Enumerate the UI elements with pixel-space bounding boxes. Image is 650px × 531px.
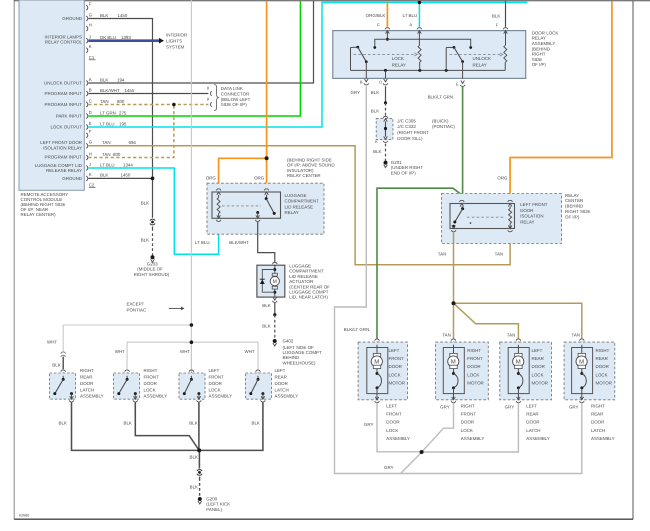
svg-text:ISOLATION RELAY: ISOLATION RELAY xyxy=(43,145,82,150)
svg-text:WHT: WHT xyxy=(245,349,255,354)
motor M3 LEFT REAR DOOR LOCK MOTOR xyxy=(516,339,521,341)
svg-text:A: A xyxy=(89,77,92,82)
svg-text:LOCK: LOCK xyxy=(209,387,221,392)
svg-text:F: F xyxy=(89,129,92,134)
svg-text:BLK/WHT: BLK/WHT xyxy=(100,88,120,93)
module U1 REMOTE ACCESSORY CONTROL MODULE xyxy=(19,0,84,190)
svg-text:LEFT: LEFT xyxy=(386,403,397,408)
svg-text:(UNDER RIGHT: (UNDER RIGHT xyxy=(391,165,424,170)
svg-text:G200: G200 xyxy=(206,497,217,502)
svg-text:FRONT: FRONT xyxy=(461,412,477,417)
svg-text:RIGHT: RIGHT xyxy=(596,348,610,353)
svg-text:MOTOR: MOTOR xyxy=(596,381,612,386)
wire BLK right front door lock to junction xyxy=(135,402,199,450)
svg-text:WHEELHOUSE): WHEELHOUSE) xyxy=(283,360,316,365)
svg-text:1344: 1344 xyxy=(123,162,133,167)
svg-text:REAR: REAR xyxy=(275,374,287,379)
svg-text:(MIDDLE OF: (MIDDLE OF xyxy=(137,267,163,272)
svg-text:C: C xyxy=(377,23,380,28)
svg-text:BLK: BLK xyxy=(189,420,197,425)
relay LUGGAGE COMPARTMENT LID RELEASE RELAY box xyxy=(212,192,281,218)
wire BLK/LT GRN relay pin E to left front door lock motor xyxy=(461,86,464,198)
svg-text:LT BLU: LT BLU xyxy=(403,13,418,18)
junction node BLK 1450 xyxy=(151,177,155,181)
svg-text:194: 194 xyxy=(117,77,124,82)
svg-text:LATCH: LATCH xyxy=(80,387,94,392)
svg-text:694: 694 xyxy=(129,140,136,145)
svg-text:RELAY CONTROL: RELAY CONTROL xyxy=(45,40,82,45)
svg-text:DK BLU: DK BLU xyxy=(100,35,116,40)
svg-text:BLK: BLK xyxy=(124,420,132,425)
svg-text:M: M xyxy=(374,358,379,365)
svg-text:DOOR SILL): DOOR SILL) xyxy=(397,136,422,141)
wire LT BLU 1344 luggage compt lid release relay xyxy=(88,168,218,254)
actuator LUGGAGE COMPARTMENT LID RELEASE ACTUATOR box xyxy=(273,262,278,264)
wire BLK left rear door latch to junction xyxy=(201,402,263,450)
svg-text:LOCK: LOCK xyxy=(532,372,544,377)
svg-text:FRONT: FRONT xyxy=(209,374,225,379)
svg-text:BLK: BLK xyxy=(190,484,198,489)
svg-text:ASSEMBLY: ASSEMBLY xyxy=(275,394,299,399)
ground G201 xyxy=(384,161,388,165)
svg-text:RIGHT: RIGHT xyxy=(461,403,475,408)
svg-text:PROGRAM INPUT: PROGRAM INPUT xyxy=(45,91,83,96)
svg-text:G402: G402 xyxy=(283,339,294,344)
wire BLK 194 unlock output xyxy=(88,1,313,83)
svg-text:LOCK: LOCK xyxy=(389,372,401,377)
svg-text:LUGGAGE: LUGGAGE xyxy=(285,193,307,198)
ground G200 xyxy=(198,497,202,501)
svg-text:ISOLATION: ISOLATION xyxy=(520,214,543,219)
svg-text:H: H xyxy=(89,151,92,156)
svg-text:GRY: GRY xyxy=(440,405,450,410)
svg-text:TAN: TAN xyxy=(442,332,451,337)
svg-text:OF I/P; ABOVE SOUND: OF I/P; ABOVE SOUND xyxy=(287,163,335,168)
svg-text:J: J xyxy=(89,162,91,167)
svg-text:FRONT: FRONT xyxy=(386,412,402,417)
svg-text:CENTER: CENTER xyxy=(565,198,583,203)
inline connector BLK G200 xyxy=(197,469,202,471)
svg-text:1455: 1455 xyxy=(125,88,135,93)
svg-text:RELAY CENTER: RELAY CENTER xyxy=(287,173,321,178)
svg-text:F: F xyxy=(496,23,499,28)
svg-text:BLK: BLK xyxy=(492,14,500,19)
svg-text:G: G xyxy=(89,12,93,17)
svg-text:RELAY: RELAY xyxy=(565,193,579,198)
svg-text:BLK: BLK xyxy=(262,324,270,329)
svg-text:1450: 1450 xyxy=(118,13,128,18)
svg-text:OF I/P; NEAR: OF I/P; NEAR xyxy=(21,207,49,212)
wire GRY from motor M3 xyxy=(424,403,519,452)
svg-text:195: 195 xyxy=(119,121,126,126)
wire BLK/WHT luggage relay to actuator xyxy=(258,222,275,262)
svg-text:(BEHIND: (BEHIND xyxy=(565,204,583,209)
wire LT BLU branch to relay pin A xyxy=(418,2,421,27)
wire WHT door jamb switch feed xyxy=(190,0,192,373)
svg-text:H: H xyxy=(89,22,92,27)
wire BLK to pin F xyxy=(504,1,506,27)
svg-text:LID RELEASE: LID RELEASE xyxy=(285,204,314,209)
svg-text:LOCK OUTPUT: LOCK OUTPUT xyxy=(50,124,82,129)
svg-text:RELEASE RELAY: RELEASE RELAY xyxy=(46,168,82,173)
svg-text:INTERIOR LAMPS: INTERIOR LAMPS xyxy=(45,34,83,39)
pin D xyxy=(384,79,388,82)
svg-text:LUGGAGE COMPT LID: LUGGAGE COMPT LID xyxy=(35,163,82,168)
motor M1 LEFT FRONT DOOR LOCK MOTOR xyxy=(375,339,380,341)
wire BLK into right rear door latch xyxy=(62,357,65,370)
svg-text:TAN: TAN xyxy=(572,332,581,337)
svg-text:INSULATOR): INSULATOR) xyxy=(287,168,313,173)
svg-text:G203: G203 xyxy=(147,262,158,267)
svg-text:RELAY: RELAY xyxy=(285,210,299,215)
svg-text:C2: C2 xyxy=(89,182,95,187)
svg-text:DOOR: DOOR xyxy=(386,420,399,425)
wire BLK right rear door latch to junction xyxy=(72,402,198,450)
motor M4 RIGHT REAR DOOR LOCK MOTOR xyxy=(580,339,585,341)
diode in actuator xyxy=(260,280,265,284)
switch LEFT FRONT DOOR LOCK ASSEMBLY xyxy=(189,370,194,372)
wire TAN to right rear door lock motor xyxy=(454,303,582,339)
svg-text:G201: G201 xyxy=(391,160,402,165)
svg-text:GROUND: GROUND xyxy=(62,16,82,21)
svg-text:DOOR: DOOR xyxy=(467,364,480,369)
svg-text:REMOTE ACCESSORY: REMOTE ACCESSORY xyxy=(21,192,69,197)
svg-text:LUGGAGE COMPT: LUGGAGE COMPT xyxy=(283,350,322,355)
svg-text:DOOR: DOOR xyxy=(526,420,539,425)
svg-text:(RIGHT FRONT: (RIGHT FRONT xyxy=(397,130,429,135)
wire TAN 800 program input pin H xyxy=(88,105,174,158)
junction node ORG xyxy=(265,156,269,160)
svg-text:62680: 62680 xyxy=(19,513,29,518)
wire BLK/WHT 1455 program input xyxy=(88,92,208,94)
wire BLK dashed to G203 xyxy=(151,227,153,231)
svg-text:RIGHT: RIGHT xyxy=(532,52,546,57)
svg-text:DOOR: DOOR xyxy=(461,420,474,425)
svg-text:PROGRAM INPUT: PROGRAM INPUT xyxy=(45,102,83,107)
svg-text:ASSEMBLY: ASSEMBLY xyxy=(461,436,485,441)
svg-text:GRY: GRY xyxy=(364,422,374,427)
wire TAN 800 program input pin C xyxy=(88,103,208,106)
svg-text:LUGGAGE: LUGGAGE xyxy=(289,264,311,269)
svg-text:LT BLU: LT BLU xyxy=(195,240,210,245)
wire TAN to left rear door lock motor xyxy=(454,303,519,339)
wire DK BLU 1393 interior lamps relay control xyxy=(88,38,159,43)
svg-text:K: K xyxy=(375,139,378,144)
svg-text:(CENTER REAR OF: (CENTER REAR OF xyxy=(289,284,330,289)
svg-text:BLK: BLK xyxy=(100,77,108,82)
relay UNLOCK RELAY xyxy=(445,48,447,71)
svg-text:LOCK: LOCK xyxy=(461,428,473,433)
svg-text:LATCH: LATCH xyxy=(526,428,540,433)
svg-text:DOOR: DOOR xyxy=(389,364,402,369)
svg-text:DOOR LOCK: DOOR LOCK xyxy=(532,30,559,35)
svg-text:BLK: BLK xyxy=(373,149,381,154)
motor M luggage actuator xyxy=(274,265,276,273)
svg-text:RIGHT SIDE: RIGHT SIDE xyxy=(565,209,590,214)
wire GRY from motor M1 xyxy=(377,403,420,452)
svg-text:DOOR: DOOR xyxy=(209,381,222,386)
svg-text:M: M xyxy=(273,279,277,285)
junction node GRY xyxy=(420,450,424,454)
svg-text:LT GRN: LT GRN xyxy=(100,110,116,115)
svg-text:E: E xyxy=(89,121,92,126)
pin B xyxy=(365,79,369,82)
svg-text:LOCK: LOCK xyxy=(144,387,156,392)
svg-text:A: A xyxy=(410,23,413,28)
junction node TAN motor bus xyxy=(452,301,456,305)
wire BLK 1450 pin K ground xyxy=(88,177,152,179)
svg-text:800: 800 xyxy=(113,152,120,157)
svg-text:J: J xyxy=(89,35,91,40)
wire BLK left front door lock to junction xyxy=(197,402,200,449)
svg-text:WHT: WHT xyxy=(47,340,57,345)
svg-text:RIGHT: RIGHT xyxy=(591,403,605,408)
svg-text:CONNECTOR: CONNECTOR xyxy=(221,92,250,97)
svg-text:TAN: TAN xyxy=(102,140,111,145)
switch RIGHT REAR DOOR LATCH ASSEMBLY xyxy=(61,370,66,372)
svg-text:BLK: BLK xyxy=(59,420,67,425)
svg-text:DOOR: DOOR xyxy=(520,208,533,213)
svg-text:SYSTEM: SYSTEM xyxy=(166,44,184,49)
svg-text:E: E xyxy=(456,82,459,87)
svg-text:8: 8 xyxy=(207,86,210,91)
svg-text:(PONTIAC): (PONTIAC) xyxy=(432,124,455,129)
svg-text:LOCK: LOCK xyxy=(467,372,479,377)
svg-text:WHT: WHT xyxy=(115,349,125,354)
svg-text:MOTOR: MOTOR xyxy=(532,381,548,386)
svg-text:DOOR: DOOR xyxy=(144,381,157,386)
inline connector on BLK 1450 xyxy=(150,219,155,221)
svg-text:(LEFT KICK: (LEFT KICK xyxy=(206,502,230,507)
switch RIGHT FRONT DOOR LOCK ASSEMBLY xyxy=(125,370,130,372)
ground G402 xyxy=(273,339,277,343)
svg-text:REAR: REAR xyxy=(532,356,544,361)
svg-text:BLK: BLK xyxy=(252,420,260,425)
junction node WHT branch1 xyxy=(190,323,194,327)
svg-text:BLK: BLK xyxy=(100,173,108,178)
svg-text:RELAY: RELAY xyxy=(392,62,406,67)
svg-text:9: 9 xyxy=(207,97,210,102)
svg-text:ASSEMBLY: ASSEMBLY xyxy=(386,436,410,441)
svg-text:F: F xyxy=(89,1,92,6)
wire LT GRN 275 park input xyxy=(88,1,300,116)
motor M2 RIGHT FRONT DOOR LOCK MOTOR xyxy=(451,339,456,341)
svg-text:LUGGAGE COMPT: LUGGAGE COMPT xyxy=(289,290,328,295)
svg-text:OF I/P): OF I/P) xyxy=(532,62,546,67)
svg-text:GRY: GRY xyxy=(351,90,361,95)
wire ORG to isolation relay coil xyxy=(510,1,612,199)
svg-text:LOCK: LOCK xyxy=(386,428,398,433)
svg-text:ORG/BLK: ORG/BLK xyxy=(366,13,386,18)
wire BLK junction to G200 xyxy=(198,450,201,468)
svg-text:REAR: REAR xyxy=(80,374,92,379)
wire BLK dashed to G200 xyxy=(198,477,201,481)
svg-text:LOCK: LOCK xyxy=(392,56,404,61)
svg-text:ASSEMBLY: ASSEMBLY xyxy=(209,394,233,399)
svg-text:M: M xyxy=(451,358,456,365)
svg-text:PONTIAC: PONTIAC xyxy=(127,307,147,312)
wire TAN isolation relay switch to motors xyxy=(452,232,455,303)
wire ORG branch to relay coil xyxy=(219,158,267,188)
svg-text:TAN: TAN xyxy=(100,99,109,104)
svg-text:GRY: GRY xyxy=(384,465,394,470)
wire BLK actuator to G402 xyxy=(273,297,277,300)
svg-text:DOOR: DOOR xyxy=(596,364,609,369)
isolation relay switch xyxy=(460,200,465,202)
svg-text:TAN: TAN xyxy=(495,252,504,257)
svg-text:TAN: TAN xyxy=(438,252,447,257)
svg-text:LEFT: LEFT xyxy=(275,368,286,373)
svg-text:PARK INPUT: PARK INPUT xyxy=(56,113,83,118)
svg-text:(BELOW LEFT: (BELOW LEFT xyxy=(221,97,251,102)
svg-text:LATCH: LATCH xyxy=(591,428,605,433)
module U1 connector C2 pins A B C D E F G H J K xyxy=(86,81,88,86)
wire ORG/BLK to pin C xyxy=(386,1,389,27)
svg-text:LEFT FRONT DOOR: LEFT FRONT DOOR xyxy=(40,140,82,145)
svg-text:REAR: REAR xyxy=(526,412,538,417)
svg-text:LEFT: LEFT xyxy=(209,368,220,373)
svg-text:OF I/P): OF I/P) xyxy=(565,214,579,219)
svg-text:ASSEMBLY: ASSEMBLY xyxy=(526,436,550,441)
svg-text:1393: 1393 xyxy=(121,35,131,40)
svg-text:LEFT: LEFT xyxy=(389,348,400,353)
svg-text:ORG: ORG xyxy=(206,176,216,181)
pin E xyxy=(461,81,465,84)
svg-text:RIGHT: RIGHT xyxy=(467,348,481,353)
svg-text:B: B xyxy=(89,87,92,92)
svg-text:BLK: BLK xyxy=(190,454,198,459)
svg-text:DOOR: DOOR xyxy=(591,420,604,425)
svg-text:ASSEMBLY: ASSEMBLY xyxy=(80,394,104,399)
svg-text:BLK: BLK xyxy=(262,303,270,308)
svg-text:ACTUATOR: ACTUATOR xyxy=(289,279,313,284)
svg-text:J/C C305: J/C C305 xyxy=(397,119,416,124)
svg-text:BLK: BLK xyxy=(141,238,149,243)
svg-text:FRONT: FRONT xyxy=(144,374,160,379)
svg-text:BLK/WHT: BLK/WHT xyxy=(229,240,249,245)
junction node TAN 800 xyxy=(172,103,176,107)
svg-text:GRY: GRY xyxy=(505,405,515,410)
svg-text:D: D xyxy=(379,80,382,85)
svg-text:DOOR: DOOR xyxy=(275,381,288,386)
svg-text:BLK/LT GRN: BLK/LT GRN xyxy=(344,327,369,332)
svg-text:COMPARTMENT: COMPARTMENT xyxy=(285,199,320,204)
svg-text:C: C xyxy=(89,98,92,103)
svg-text:M: M xyxy=(516,358,521,365)
svg-text:INTERIOR: INTERIOR xyxy=(166,32,187,37)
wire TAN 694 left front door isolation relay feed xyxy=(88,146,510,265)
svg-text:J/C C332: J/C C332 xyxy=(397,124,416,129)
svg-text:COMPARTMENT: COMPARTMENT xyxy=(289,269,324,274)
svg-text:RIGHT SHROUD): RIGHT SHROUD) xyxy=(134,272,170,277)
svg-text:ASSEMBLY: ASSEMBLY xyxy=(591,436,615,441)
svg-text:DOOR: DOOR xyxy=(80,381,93,386)
svg-text:MOTOR: MOTOR xyxy=(389,381,405,386)
svg-text:FRONT: FRONT xyxy=(467,356,483,361)
svg-text:LATCH: LATCH xyxy=(275,387,289,392)
wire LT BLU 195 lock output xyxy=(88,2,527,127)
switch LEFT REAR DOOR LATCH ASSEMBLY xyxy=(256,370,261,372)
svg-text:M: M xyxy=(579,358,584,365)
svg-text:RELAY CENTER): RELAY CENTER) xyxy=(21,212,56,217)
wire WHT to right rear door latch xyxy=(63,325,191,351)
isolation relay coil xyxy=(508,200,513,202)
svg-text:MOTOR: MOTOR xyxy=(467,381,483,386)
svg-text:ASSEMBLY: ASSEMBLY xyxy=(144,394,168,399)
svg-text:LT BLU: LT BLU xyxy=(100,162,115,167)
relay LEFT FRONT DOOR ISOLATION RELAY box xyxy=(450,204,515,229)
isolation relay mechanical link xyxy=(467,216,506,218)
svg-text:RIGHT: RIGHT xyxy=(144,368,158,373)
wire ORG from top to luggage relay xyxy=(265,1,268,189)
svg-text:LOCK: LOCK xyxy=(596,372,608,377)
luggage relay switch xyxy=(264,189,269,191)
svg-text:RELAY: RELAY xyxy=(520,219,534,224)
svg-text:FRONT: FRONT xyxy=(389,356,405,361)
svg-text:LIGHTS: LIGHTS xyxy=(166,38,182,43)
wire BLK relay pin D to G201 xyxy=(384,86,386,102)
svg-text:ORG: ORG xyxy=(497,176,507,181)
svg-text:GRY: GRY xyxy=(569,405,579,410)
wire BLK 1450 pin G to G203 ground path xyxy=(88,19,152,218)
wire GRY relay pin B to door lock motors xyxy=(335,86,422,473)
svg-text:BLK/LT GRN: BLK/LT GRN xyxy=(428,94,453,99)
svg-text:RELAY: RELAY xyxy=(473,62,487,67)
svg-text:LEFT: LEFT xyxy=(526,403,537,408)
svg-text:ASSEMBLY: ASSEMBLY xyxy=(532,41,556,46)
connector J/C C305 C332 xyxy=(376,118,393,139)
svg-text:TAN: TAN xyxy=(102,152,111,157)
svg-text:DATA LINK: DATA LINK xyxy=(221,86,243,91)
svg-text:PROGRAM INPUT: PROGRAM INPUT xyxy=(45,154,83,159)
svg-text:(LEFT SIDE OF: (LEFT SIDE OF xyxy=(283,345,315,350)
relay assembly DOOR LOCK RELAY ASSEMBLY box xyxy=(333,31,526,79)
wire TAN to right front door lock motor xyxy=(452,303,455,339)
svg-text:K: K xyxy=(89,44,92,49)
svg-text:UNLOCK OUTPUT: UNLOCK OUTPUT xyxy=(44,80,82,85)
svg-text:RIGHT: RIGHT xyxy=(80,368,94,373)
junction node WHT branch2 xyxy=(190,340,194,344)
wire GRY from motor M2 xyxy=(423,403,454,451)
svg-text:WHT: WHT xyxy=(180,349,190,354)
relay center box (isolation) xyxy=(442,194,562,244)
svg-text:D: D xyxy=(89,110,92,115)
svg-text:LEFT: LEFT xyxy=(532,348,543,353)
ground G203 xyxy=(151,255,155,259)
svg-text:BLK: BLK xyxy=(141,200,149,205)
svg-text:BEHIND: BEHIND xyxy=(283,355,300,360)
svg-text:SIDE OF I/P): SIDE OF I/P) xyxy=(221,102,247,107)
svg-text:C1: C1 xyxy=(89,55,95,60)
relay center box (luggage) xyxy=(207,183,324,234)
svg-text:G: G xyxy=(89,140,93,145)
svg-text:(BEHIND: (BEHIND xyxy=(532,46,550,51)
svg-text:BLK: BLK xyxy=(52,363,60,368)
svg-text:CONTROL MODULE: CONTROL MODULE xyxy=(21,197,63,202)
svg-text:ORG: ORG xyxy=(254,176,264,181)
svg-text:K: K xyxy=(89,172,92,177)
svg-text:EXCEPT: EXCEPT xyxy=(127,301,145,306)
svg-text:BLK: BLK xyxy=(100,13,108,18)
svg-text:END OF I/P): END OF I/P) xyxy=(391,170,416,175)
svg-text:DOOR: DOOR xyxy=(532,364,545,369)
svg-text:B: B xyxy=(360,80,363,85)
relay LOCK RELAY xyxy=(386,31,388,40)
svg-text:BLK: BLK xyxy=(371,90,379,95)
svg-text:275: 275 xyxy=(119,110,126,115)
svg-text:BLK: BLK xyxy=(371,108,379,113)
svg-text:1450: 1450 xyxy=(121,173,131,178)
